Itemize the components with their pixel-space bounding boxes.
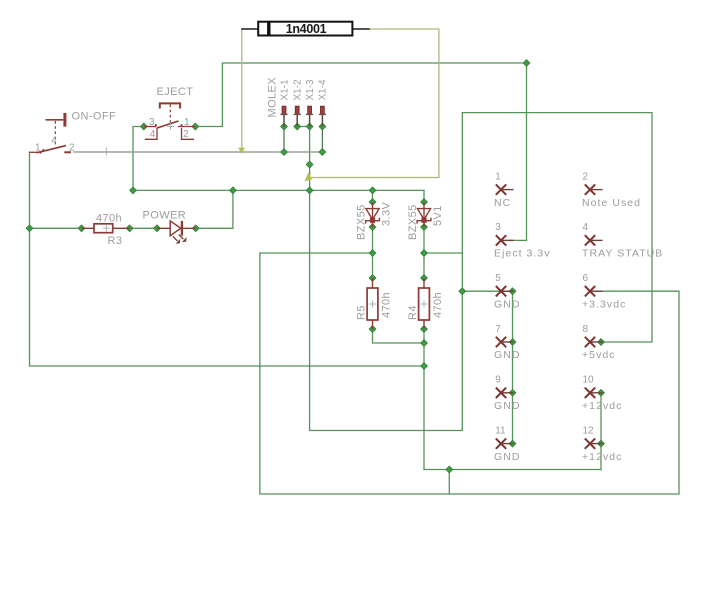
svg-text:1: 1 [495, 171, 501, 182]
node junction (129.6,228.3) [126, 225, 133, 232]
node junction (284,126.5) [281, 123, 288, 130]
node junction (81.5,228.3) [78, 225, 85, 232]
node junction (601,342) [598, 339, 605, 346]
node junction (372.5,227) [369, 224, 376, 231]
wire molex X1-1 drop to pale rail [283, 127, 285, 153]
node junction (424,366) [421, 363, 428, 370]
LED POWER pins [157, 227, 196, 229]
svg-text:X1-3: X1-3 [305, 79, 316, 101]
switch S2 origin cross [167, 123, 174, 130]
node junction (133,190.4) [130, 187, 137, 194]
node junction (601,443.6) [598, 440, 605, 447]
switch S1 ON-OFF actuator T-bar [46, 113, 65, 127]
wire R3 row segments [30, 190, 233, 228]
node junction (462.3,291.2) [459, 288, 466, 295]
svg-text:R3: R3 [108, 235, 123, 247]
wire branch from y469.5 down to y494 rail [448, 470, 450, 495]
switch S2 EJECT pin2 hook [182, 128, 195, 139]
switch S2 EJECT pin4 hook [145, 128, 157, 139]
diode D1 1n4001 body [258, 22, 352, 36]
node junction (372.5,202) [369, 199, 376, 206]
svg-text:1n4001: 1n4001 [286, 22, 327, 36]
switch S1 ON-OFF lever and contacts [30, 146, 72, 154]
header pin 12 (+12vdc) X mark [585, 438, 603, 448]
node junction (372.5,190.4) [369, 187, 376, 194]
wire y253 rail right segment ZD2 to x462.3 [424, 252, 462, 254]
node junction (512.5,443.6) [509, 440, 516, 447]
wire zener ZD2 column segments [424, 227, 601, 470]
svg-text:4: 4 [51, 135, 57, 146]
node junction (284,152) [281, 149, 288, 156]
LED POWER body [170, 221, 182, 236]
node junction (322.3,152) [319, 149, 326, 156]
wire big loop x259.9 down, y494 across, x679 up to pin6 +3.3vdc [260, 253, 679, 494]
svg-text:BZX55: BZX55 [355, 204, 367, 240]
node junction (512.5,342) [509, 339, 516, 346]
node arrow junction olive onto GND trunk [304, 173, 312, 182]
node junction (424,227) [421, 224, 428, 231]
wire molex X1-2 to X1-3 link [297, 126, 309, 128]
svg-text:2: 2 [583, 171, 589, 182]
svg-text:470h: 470h [432, 292, 444, 318]
diode D1 1n4001 right lead [352, 28, 369, 30]
resistor R5 pins [372, 278, 374, 329]
zener diode 3.3V body [366, 209, 380, 224]
header pin 9 (GND) X mark [496, 388, 514, 398]
resistor R4 origin cross [421, 301, 428, 308]
svg-text:6: 6 [583, 273, 589, 284]
node arrow junction olive onto pale rail [238, 148, 245, 155]
svg-text:ON-OFF: ON-OFF [72, 111, 117, 123]
node junction (309.6,190.4) [306, 187, 313, 194]
svg-text:X1-1: X1-1 [279, 79, 290, 101]
svg-text:9: 9 [495, 375, 501, 386]
svg-text:GND: GND [494, 451, 520, 463]
svg-text:1: 1 [35, 142, 41, 153]
node junction (526.5,63) [523, 60, 530, 67]
switch S2 EJECT dashed link [169, 105, 171, 125]
header pin 1 (NC) X mark [496, 184, 514, 194]
resistor R5 origin cross [369, 301, 376, 308]
node junction (143.8,126.5) [140, 123, 147, 130]
node junction (424,343) [421, 340, 428, 347]
header pin 4 (TRAY STATUB) X mark [585, 235, 603, 245]
connector X1 pin X1-3 [306, 106, 313, 126]
node junction (309.6,126.5) [306, 123, 313, 130]
node junction (372.5,329) [369, 326, 376, 333]
node junction (195.7,228.3) [192, 225, 199, 232]
svg-text:3: 3 [495, 222, 501, 233]
resistor R3 pins [82, 227, 130, 229]
wire rail y190 from x133 to x424 [133, 189, 424, 191]
header pin 8 (+5vdc) X mark [585, 337, 603, 347]
svg-text:R5: R5 [355, 305, 367, 320]
svg-text:GND: GND [494, 349, 520, 361]
resistor R4 body [419, 288, 430, 320]
svg-text:4: 4 [583, 222, 589, 233]
wire zener ZD1 column segments [373, 227, 425, 343]
zener diode 3.3V pins [372, 202, 374, 227]
svg-text:Note Used: Note Used [582, 197, 641, 209]
svg-text:2: 2 [183, 129, 189, 140]
wire GND trunk x309.6 down, across y430.5, up x462.3 to pin5 row [310, 127, 463, 431]
svg-text:X1-2: X1-2 [293, 79, 304, 101]
wire molex X1-4 drop to pale rail [321, 127, 323, 153]
svg-text:8: 8 [583, 324, 589, 335]
svg-text:+3.3vdc: +3.3vdc [582, 298, 626, 310]
svg-text:3: 3 [149, 117, 155, 128]
header pin 11 (GND) X mark [496, 438, 514, 448]
node junction (449.3,469.5) [446, 466, 453, 473]
node junction (29.5,228.3) [26, 225, 33, 232]
header pin 2 (Note Used) X mark [585, 184, 603, 194]
svg-text:R4: R4 [407, 305, 419, 320]
connector X1 pin X1-4 [319, 106, 326, 126]
node junction (322.4,126.5) [319, 123, 326, 130]
node origin cross on pale rail [103, 148, 110, 155]
svg-text:+12vdc: +12vdc [582, 451, 622, 463]
node junction (297.2,126.5) [294, 123, 301, 130]
wire net DIODE-ANODE olive: from diode left lead down to pale rail [241, 29, 243, 147]
svg-text:3.3V: 3.3V [381, 202, 393, 226]
svg-text:NC: NC [494, 197, 511, 209]
zener diode 5V1 body [417, 209, 431, 224]
svg-text:EJECT: EJECT [157, 86, 194, 98]
svg-text:+5vdc: +5vdc [582, 349, 616, 361]
wire net EJECT-SIGNAL: eject pin1 up and across to pin3 of output header [195, 63, 526, 240]
switch S1 ON-OFF dashed link [54, 121, 56, 147]
svg-text:4: 4 [150, 129, 156, 140]
svg-text:10: 10 [583, 375, 595, 386]
svg-text:X1-4: X1-4 [318, 79, 329, 101]
svg-text:11: 11 [495, 425, 506, 436]
svg-text:470h: 470h [96, 212, 122, 224]
wire net DIODE-CATHODE olive: right lead across and down to GND trunk [312, 29, 439, 178]
wire zener drops from rail y190 [373, 190, 425, 202]
node junction (424,329) [421, 326, 428, 333]
svg-text:7: 7 [495, 324, 501, 335]
node junction (232.9,190.4) [230, 187, 237, 194]
node junction (372.5,253) [369, 250, 376, 257]
resistor R3 origin cross [103, 225, 110, 232]
svg-text:MOLEX: MOLEX [267, 77, 279, 118]
node junction (309.6,164.5) [306, 161, 313, 168]
wire pin5 row to GND column [462, 290, 512, 292]
wire left box edge x462.3 from box top to pin5 junction [461, 113, 463, 292]
header pin 6 (+3.3vdc) X mark [585, 286, 603, 296]
zener diode 5V1 pins [423, 202, 425, 227]
node junction (424,278) [421, 275, 428, 282]
switch S2 EJECT actuator bracket [160, 103, 180, 108]
wire eject pin3 to left rail [133, 127, 144, 191]
node junction (157,228.3) [154, 225, 161, 232]
header pin 10 (+12vdc) X mark [585, 388, 603, 398]
svg-text:5: 5 [495, 273, 501, 284]
wire pale rail y152 from ON-OFF pin2 to molex X1-4 [74, 151, 322, 153]
diode D1 1n4001 left lead [241, 28, 258, 30]
svg-text:BZX55: BZX55 [407, 204, 419, 240]
LED POWER emission arrows [173, 235, 187, 244]
svg-text:470h: 470h [381, 292, 393, 318]
node junction (424,253) [421, 250, 428, 257]
node junction (195.3,126.5) [192, 123, 199, 130]
node junction (512.5,291.2) [509, 288, 516, 295]
node junction (424,202) [421, 199, 428, 206]
svg-text:5V1: 5V1 [432, 205, 444, 226]
resistor R5 body [367, 288, 378, 320]
node junction (512.5,392.8) [509, 389, 516, 396]
svg-text:GND: GND [494, 400, 520, 412]
resistor R3 body [94, 224, 113, 233]
svg-text:Eject 3.3v: Eject 3.3v [494, 248, 551, 260]
node junction (372.5,278) [369, 275, 376, 282]
header pin 5 (GND) X mark [496, 286, 514, 296]
connector X1 pin X1-1 [280, 106, 287, 126]
svg-text:TRAY STATUB: TRAY STATUB [582, 248, 663, 260]
switch S2 EJECT lever and contacts [144, 121, 196, 128]
node junction (601,392.8) [598, 389, 605, 396]
wire GND column x512.5 pins 5-7-9-11 [512, 291, 514, 443]
svg-text:GND: GND [494, 298, 520, 310]
svg-text:POWER: POWER [143, 209, 187, 221]
header pin 7 (GND) X mark [496, 337, 514, 347]
header pin 3 (Eject 3.3v) X mark [496, 235, 514, 245]
wire net BOX-TOP: +5vdc loop from left edge across top and down to pin8 [462, 113, 652, 342]
wire +12vdc column pins 10-12 down to y469.5 [600, 393, 602, 470]
wire left vertical x29.5 from switch down through R3 row to y366 and across to x424 [30, 152, 425, 366]
svg-text:2: 2 [69, 142, 75, 153]
svg-text:+12vdc: +12vdc [582, 400, 622, 412]
connector X1 pin X1-2 [294, 106, 301, 126]
resistor R4 pins [423, 278, 425, 329]
wire y253 rail left segment to ZD1 column [260, 252, 373, 254]
svg-text:1: 1 [184, 117, 190, 128]
svg-text:12: 12 [583, 425, 595, 436]
